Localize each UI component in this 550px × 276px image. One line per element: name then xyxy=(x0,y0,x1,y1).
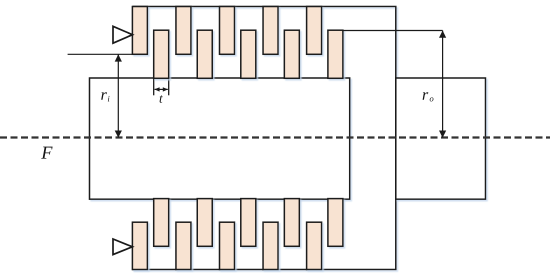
upper inner plate 5 xyxy=(328,30,343,78)
lower inner plate 4 xyxy=(284,199,299,247)
dimension arrow r_o xyxy=(439,31,446,138)
upper inner plate 4 xyxy=(284,30,299,78)
label F xyxy=(41,147,52,159)
lower inner plate 3 xyxy=(241,199,256,247)
label r_i xyxy=(101,92,109,101)
r_i extension line xyxy=(68,53,133,55)
lower inner plate 5 xyxy=(328,199,343,247)
upper inner plate 3 xyxy=(241,30,256,78)
lower inner plate 2 xyxy=(197,199,212,247)
lower outer plate 3 xyxy=(220,222,235,269)
upper outer plate 1 xyxy=(132,7,147,55)
dimension arrow t xyxy=(154,87,168,91)
lower inner plate 1 xyxy=(154,199,169,247)
t extension line left xyxy=(153,79,155,96)
upper outer plate 5 xyxy=(307,7,322,55)
r_o extension line xyxy=(342,30,442,32)
lower outer plate 2 xyxy=(176,222,191,269)
dimension arrow r_i xyxy=(115,54,122,138)
drum housing outline xyxy=(132,7,395,270)
label t xyxy=(160,95,163,103)
lower outer plate 1 xyxy=(132,222,147,269)
label r_o xyxy=(423,92,434,101)
upper outer plate 2 xyxy=(176,7,191,55)
hub rectangle xyxy=(90,78,350,199)
lower input triangle xyxy=(113,239,132,255)
upper outer plate 3 xyxy=(220,7,235,55)
upper input triangle xyxy=(113,26,133,43)
lower outer plate 5 xyxy=(307,222,322,269)
lower outer plate 4 xyxy=(263,222,278,269)
centerline (dashed axis) xyxy=(0,136,550,138)
upper inner plate 1 xyxy=(154,30,169,78)
right shaft block xyxy=(396,78,486,199)
upper inner plate 2 xyxy=(197,30,212,78)
t extension line right xyxy=(168,79,170,96)
upper outer plate 4 xyxy=(263,7,278,55)
